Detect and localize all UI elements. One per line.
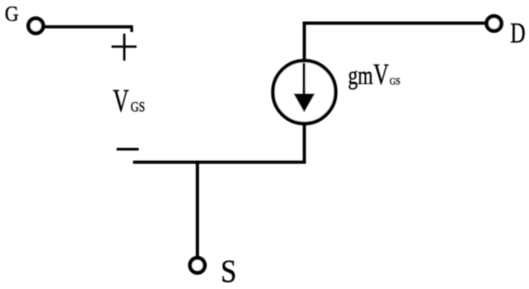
svg-text:D: D [510, 19, 525, 50]
terminal G [28, 18, 43, 33]
current source arrow head [294, 94, 315, 113]
wire drain horizontal [303, 22, 485, 25]
wire drain vertical lower [303, 124, 306, 162]
current source I1 circle [273, 61, 336, 124]
wire source horizontal [133, 161, 306, 164]
current source arrow shaft [302, 63, 305, 96]
plus sign [112, 45, 137, 47]
svg-text:G: G [5, 1, 19, 27]
minus sign [117, 148, 139, 151]
svg-text:V: V [113, 84, 129, 120]
wire stub at gate wire end [130, 27, 133, 32]
wire drain vertical upper [303, 22, 306, 61]
terminal S [190, 258, 205, 273]
wire source vertical [196, 161, 199, 257]
svg-text:gm: gm [348, 61, 373, 91]
svg-text:V: V [373, 58, 389, 91]
svg-text:GS: GS [390, 76, 401, 87]
svg-text:GS: GS [131, 98, 145, 115]
terminal D [487, 16, 502, 31]
svg-text:S: S [221, 252, 237, 289]
wire gate horizontal [44, 25, 133, 28]
